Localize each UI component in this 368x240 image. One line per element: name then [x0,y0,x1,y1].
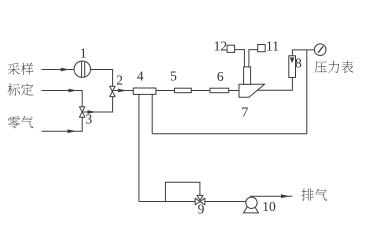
svg-text:11: 11 [266,39,279,54]
chimney stack on 7 [244,67,251,84]
wire pump 1 to valve 2 [91,70,113,87]
wire valve 3 outlet up to valve 2 [82,97,112,112]
wire valve 9 to pump 10 [205,201,246,203]
wire 零气 inlet line [42,117,83,131]
svg-text:5: 5 [170,69,177,84]
svg-text:7: 7 [242,104,249,119]
flow arrow valve3 outlet [88,110,97,114]
svg-text:4: 4 [137,69,144,84]
wire leg of 4 (left) down to bypass line [138,94,140,201]
pump 10 (exhaust pump) [244,197,259,213]
rotameter 8 [289,56,296,78]
component 5 (filter) [175,88,192,93]
flow arrow on 标定 line [69,89,78,93]
analyzer 7 (detector body) [239,84,265,97]
wire pump 10 to exhaust [250,195,292,197]
svg-text:1: 1 [80,45,87,60]
svg-text:3: 3 [85,111,92,126]
wire sensor 12 to chimney [235,50,245,67]
wire rotameter 8 top to gauge [292,50,315,56]
wire bypass line from 4 to valve 9 [139,201,195,203]
valve 9 (three-way with bypass) [195,198,205,205]
pump 1 (sampling pump) [74,61,90,77]
wire sensor 11 to chimney [249,50,258,67]
wire 4 to 5 [156,90,175,92]
component 6 (filter) [210,88,229,93]
wire 采样 inlet line [42,69,75,71]
sensor 12 (electrode block) [227,45,235,52]
svg-text:10: 10 [262,199,276,214]
valve 3 (three-way, vertical) [79,107,85,118]
svg-text:6: 6 [217,69,224,84]
svg-text:9: 9 [198,202,205,217]
valve 2 (three-way, vertical) [110,86,116,96]
svg-text:12: 12 [214,39,228,54]
label 压力表 [315,61,354,73]
wire return: tee below gauge line down and back to component 4 [152,50,307,134]
component 4 (scrubber/filter header) [133,88,156,94]
node 采样 (sample inlet) label [8,63,34,75]
node 标定 (calibration inlet) label [8,83,34,95]
wire 6 to analyzer 7 [229,90,239,92]
wire leg of 4 (right) down to return line [151,94,153,133]
wire valve 2 outlet to column 4 [113,90,134,92]
valve 9 top port triangle [197,195,203,200]
flow arrow on 零气 line [68,129,77,133]
wire bypass loop over valve 9 [165,182,200,201]
svg-text:8: 8 [295,55,302,70]
svg-text:2: 2 [116,72,123,87]
wire 标定 inlet line [42,91,83,107]
flow arrow on 采样 line [61,68,70,72]
sensor 11 (electrode block) [258,45,266,52]
float in rotameter 8 [290,58,295,64]
wire 5 to 6 [191,90,210,92]
pressure gauge (压力表) [314,44,326,56]
node 零气 (zero gas inlet) label [8,116,33,128]
wire analyzer 7 outlet to rotameter 8 [258,78,293,91]
node 排气 (exhaust) label [301,189,327,201]
flow arrow to 排气 [281,194,290,198]
flow arrow valve2->4 [118,89,127,93]
